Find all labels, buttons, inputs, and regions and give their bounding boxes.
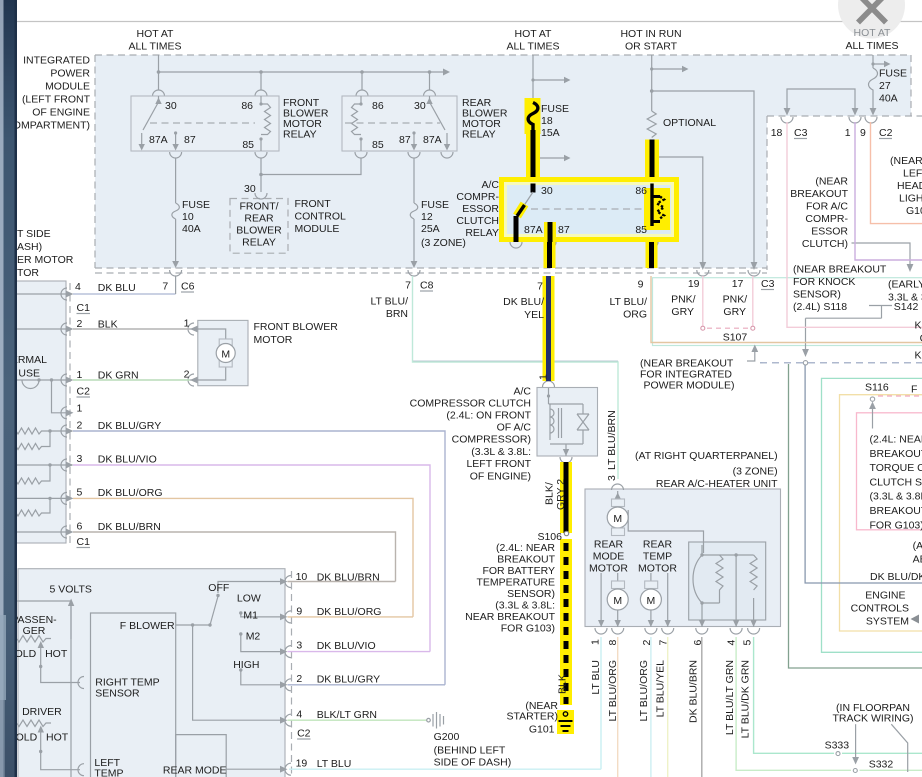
svg-text:85: 85 — [372, 139, 384, 151]
svg-text:T SIDE: T SIDE — [17, 228, 51, 240]
svg-text:4: 4 — [75, 281, 81, 293]
svg-text:2: 2 — [184, 369, 190, 381]
svg-text:LT BLU/BRN: LT BLU/BRN — [606, 410, 618, 470]
svg-text:1: 1 — [845, 127, 851, 139]
svg-text:5: 5 — [741, 640, 753, 646]
svg-text:TRACK WIRING): TRACK WIRING) — [832, 713, 913, 725]
svg-text:DK BLU/ORG: DK BLU/ORG — [98, 487, 163, 499]
breakout box (near breakout for A/C compressor clutch) dashed border — [767, 116, 922, 270]
wire ORG from C2-9 fuse 27 — [871, 122, 922, 224]
S107 pointer arrow — [747, 352, 755, 361]
wire rear pin 5 LT BLU/DK GRN to S333 — [754, 637, 834, 753]
svg-text:C3: C3 — [794, 127, 808, 139]
svg-text:LT BLU/ORG: LT BLU/ORG — [638, 660, 650, 721]
svg-text:30: 30 — [165, 100, 177, 112]
A/C compressor clutch box — [537, 388, 598, 457]
svg-text:DK BLU/BRN: DK BLU/BRN — [317, 572, 380, 584]
passenger temp pot — [17, 636, 51, 643]
jumper bridge C3-18 to C2-1 — [787, 89, 855, 108]
svg-text:87: 87 — [558, 224, 570, 236]
svg-text:DK GRN: DK GRN — [98, 370, 139, 382]
svg-text:LT BLU/LT GRN: LT BLU/LT GRN — [724, 660, 736, 735]
svg-text:7: 7 — [537, 281, 543, 293]
connector arcs below A/C relay — [510, 242, 658, 248]
svg-text:2: 2 — [641, 640, 653, 646]
svg-text:GER: GER — [23, 625, 46, 637]
svg-text:(A: (A — [913, 540, 922, 552]
svg-text:86: 86 — [635, 185, 647, 197]
svg-text:(3.3L & 3.8L:: (3.3L & 3.8L: — [471, 446, 531, 458]
svg-text:85: 85 — [242, 139, 254, 151]
svg-text:YEL: YEL — [524, 309, 544, 321]
svg-text:CLUTCH): CLUTCH) — [802, 238, 848, 250]
svg-text:ENGINE: ENGINE — [865, 590, 905, 602]
left connector dashed line — [69, 283, 71, 546]
svg-text:MODULE: MODULE — [45, 81, 90, 93]
svg-text:OF ENGINE: OF ENGINE — [32, 107, 90, 119]
svg-text:COMPRESSOR): COMPRESSOR) — [452, 434, 531, 446]
svg-text:ESSOR: ESSOR — [462, 203, 499, 215]
svg-text:ALL TIMES: ALL TIMES — [506, 41, 559, 53]
svg-text:(NEAR: (NEAR — [815, 176, 848, 188]
rear unit resistor sub-box — [689, 542, 766, 620]
S106 splice circle — [564, 531, 568, 535]
S116 splice arrow — [872, 409, 874, 429]
svg-text:(2.4L: NEAR: (2.4L: NEAR — [496, 542, 555, 554]
relay3 pin30 stub — [531, 184, 536, 193]
fuse 18 symbol highlighted — [528, 103, 538, 131]
connector arcs above A/C relay — [527, 172, 658, 178]
cream system box — [840, 395, 922, 631]
svg-text:(BEHIND LEFT: (BEHIND LEFT — [434, 745, 506, 757]
relay3 internal dashed line — [531, 208, 646, 210]
svg-text:7: 7 — [658, 640, 670, 646]
front/rear blower relay dashed box — [230, 199, 288, 254]
svg-text:LT BLU/YEL: LT BLU/YEL — [655, 660, 667, 718]
svg-text:FOR KNOCK: FOR KNOCK — [793, 276, 855, 288]
wire top motor to resistor pack — [628, 510, 703, 553]
control 5 volts arrow — [70, 605, 72, 623]
motor box pin arrows — [190, 326, 198, 333]
relay R1 front blower motor relay box — [131, 96, 279, 151]
left resistor row6 wire — [16, 531, 66, 533]
svg-text:17: 17 — [732, 278, 744, 290]
dashed wire K circuit — [760, 362, 922, 364]
svg-text:GRY 2: GRY 2 — [555, 479, 567, 510]
close button X — [838, 0, 905, 39]
svg-text:TEMPERATURE: TEMPERATURE — [476, 577, 555, 589]
svg-text:M: M — [613, 513, 622, 525]
relay R2 coil — [352, 96, 362, 151]
svg-text:S107: S107 — [723, 332, 748, 344]
white callout box S107 region — [653, 278, 922, 346]
IPM dashed border — [95, 55, 911, 268]
svg-text:87: 87 — [184, 134, 196, 146]
svg-text:5: 5 — [77, 487, 83, 499]
svg-text:REAR A/C-HEATER UNIT: REAR A/C-HEATER UNIT — [656, 478, 778, 490]
svg-text:G102: G102 — [906, 205, 922, 217]
svg-text:BLK: BLK — [98, 319, 118, 331]
svg-text:HOT AT: HOT AT — [137, 28, 175, 40]
svg-text:GRY: GRY — [671, 306, 694, 318]
svg-text:2: 2 — [296, 673, 302, 685]
wire relay3 87 to IPM connector highlighted — [544, 242, 556, 268]
svg-text:27: 27 — [879, 80, 891, 92]
wire gray companion over LT BLU/BRN — [413, 360, 619, 362]
svg-text:9: 9 — [860, 127, 866, 139]
svg-text:87: 87 — [399, 134, 411, 146]
S332 splice circle — [853, 769, 857, 773]
svg-text:C2: C2 — [77, 386, 91, 398]
relay R2 switch — [430, 102, 446, 130]
wire rear pin 7 LT BLU/YEL — [667, 637, 669, 777]
wire LT BLU/BRN from C8 to rear unit pin 3 — [413, 276, 619, 479]
svg-text:FRONT: FRONT — [295, 198, 332, 210]
svg-text:HEAD-: HEAD- — [897, 180, 922, 192]
svg-text:LT BLU/DK GRN: LT BLU/DK GRN — [740, 660, 752, 738]
wire rear pin 6 DK BLU/BRN — [701, 637, 703, 777]
wire relay coils 85 join to front/rear blower relay — [255, 152, 367, 158]
svg-text:BLK/LT GRN: BLK/LT GRN — [317, 709, 377, 721]
svg-text:FOR A/C: FOR A/C — [806, 201, 848, 213]
svg-text:REAR MODE: REAR MODE — [163, 765, 227, 777]
blower switch lever to OFF — [210, 597, 218, 625]
svg-text:(2.4L: NEAR: (2.4L: NEAR — [870, 434, 922, 446]
control box wire arrows — [280, 578, 288, 585]
IPM module background fill — [95, 55, 911, 268]
switch M2 terminal — [239, 632, 242, 635]
wire DK BLU/VIO row — [73, 465, 430, 652]
svg-text:OF ENGINE): OF ENGINE) — [470, 471, 531, 483]
connector arcs atop relay boxes — [153, 90, 436, 96]
fuse 10 symbol — [172, 203, 180, 219]
svg-text:K: K — [915, 350, 922, 362]
left resistor box connector arcs — [61, 288, 67, 538]
svg-text:7: 7 — [162, 281, 168, 293]
wire PNK/GRY pin19 to S107 — [702, 276, 704, 326]
svg-text:40A: 40A — [879, 93, 898, 105]
left resistor ladder row1 stub — [52, 380, 67, 413]
svg-text:30: 30 — [244, 183, 256, 195]
dashed pink wire at S116 — [878, 395, 922, 397]
svg-text:LIGHT): LIGHT) — [899, 193, 922, 205]
wire S118 to S142 — [806, 306, 893, 350]
F BLOWER sub-box — [91, 613, 176, 777]
svg-text:7: 7 — [405, 280, 411, 292]
svg-text:CONTROL: CONTROL — [295, 211, 346, 223]
wire BLK S106 to G101 highlighted dashed — [560, 539, 572, 705]
svg-text:(3.3L & 3.8L: (3.3L & 3.8L — [870, 491, 922, 503]
svg-text:POWER MODULE): POWER MODULE) — [644, 380, 735, 392]
front blower motor internals — [190, 329, 226, 380]
svg-text:15A: 15A — [541, 127, 560, 139]
svg-text:87A: 87A — [423, 134, 442, 146]
svg-text:STARTER): STARTER) — [506, 711, 558, 723]
wire relay2 pin87 to fuse12 — [408, 152, 453, 158]
svg-text:OLD: OLD — [16, 732, 38, 744]
svg-text:F: F — [911, 384, 917, 396]
svg-text:K: K — [915, 320, 922, 332]
svg-text:1: 1 — [538, 374, 550, 380]
svg-text:FUSE: FUSE — [541, 103, 569, 115]
svg-text:OF A/C: OF A/C — [497, 422, 532, 434]
A/C-heater control module box (bottom left) — [18, 569, 285, 777]
svg-text:BREAKOUT: BREAKOUT — [497, 554, 555, 566]
svg-text:COMPR-: COMPR- — [456, 191, 499, 203]
svg-text:SENSOR: SENSOR — [95, 688, 140, 700]
svg-text:FUSE: FUSE — [182, 199, 210, 211]
wire BLK/LT GRN to G200 — [288, 719, 428, 721]
svg-text:86: 86 — [372, 100, 384, 112]
svg-text:INTEGRATED: INTEGRATED — [23, 55, 90, 67]
temperature pots sub-box — [17, 601, 71, 777]
svg-text:RELAY: RELAY — [283, 129, 317, 141]
svg-text:1: 1 — [184, 318, 190, 330]
svg-text:F BLOWER: F BLOWER — [120, 620, 175, 632]
HOT feed 2 wire to fuse 18 — [533, 55, 564, 102]
wire rear pin 2 LT BLU/ORG — [650, 637, 652, 777]
svg-text:(2.4L: ON FRONT: (2.4L: ON FRONT — [446, 410, 531, 422]
svg-text:ALL TIMES: ALL TIMES — [845, 40, 898, 52]
svg-text:PNK/: PNK/ — [671, 294, 696, 306]
control box connector dashed line — [291, 571, 293, 777]
svg-text:25A: 25A — [421, 223, 440, 235]
relay R1 coil — [261, 96, 271, 151]
svg-text:1: 1 — [589, 639, 601, 645]
relay R1 pin 87 — [175, 133, 177, 145]
mint system box — [822, 378, 922, 652]
wire DK BLU row C1-4 to C6 — [73, 293, 176, 295]
svg-text:MOTOR: MOTOR — [589, 563, 628, 575]
svg-text:85: 85 — [635, 224, 647, 236]
svg-text:ER MOTOR: ER MOTOR — [17, 254, 74, 266]
left box wire arrows into connector — [66, 291, 74, 298]
driver temp pot — [17, 720, 51, 727]
svg-text:DK BLU/ORG: DK BLU/ORG — [317, 606, 382, 618]
svg-text:MOTOR: MOTOR — [638, 563, 677, 575]
wire DK BLU/GRY row — [73, 431, 445, 685]
svg-text:DK BLU/GRY: DK BLU/GRY — [98, 420, 161, 432]
svg-text:CLUTCH SO: CLUTCH SO — [870, 476, 922, 488]
floorpan leader line — [891, 724, 907, 772]
blower motor resistor box (left) — [15, 281, 66, 543]
svg-text:30: 30 — [541, 185, 553, 197]
wire optional to relay 86 highlighted — [645, 140, 659, 179]
IPM connector dashed row — [95, 272, 767, 274]
svg-text:19: 19 — [688, 278, 700, 290]
rear resistor 1 — [716, 555, 723, 603]
wire switch common to BLK/LT GRN row — [193, 625, 280, 720]
svg-text:BLK/: BLK/ — [544, 482, 556, 505]
svg-text:(NEAR BREAKOUT: (NEAR BREAKOUT — [793, 264, 887, 276]
switch M1 terminal — [239, 611, 242, 614]
svg-text:DK BLU/BRN: DK BLU/BRN — [688, 660, 700, 723]
svg-text:9: 9 — [638, 278, 644, 290]
svg-text:18: 18 — [771, 127, 783, 139]
relay R2 internal dashed — [345, 122, 440, 124]
svg-text:DK BLU/: DK BLU/ — [503, 296, 544, 308]
svg-text:4: 4 — [296, 709, 302, 721]
wire rear pin 8 LT BLU/ORG — [617, 637, 619, 777]
switch HIGH terminal — [239, 668, 242, 671]
svg-text:5 VOLTS: 5 VOLTS — [50, 584, 92, 596]
wire PNK/GRY pin17 to S107 — [752, 276, 754, 326]
svg-text:S332: S332 — [869, 759, 894, 771]
svg-text:G101: G101 — [529, 724, 555, 736]
svg-text:COMPARTMENT): COMPARTMENT) — [5, 120, 90, 132]
svg-text:C8: C8 — [420, 280, 434, 292]
svg-text:(NEAR: (NEAR — [890, 155, 922, 167]
svg-text:MODE: MODE — [593, 551, 625, 563]
svg-text:HOT: HOT — [46, 732, 69, 744]
sage system box (engine controls outer) — [789, 364, 922, 668]
relay3 pin 87 output wire highlighted — [544, 222, 556, 242]
fuse 12 symbol — [410, 203, 418, 219]
svg-text:USE: USE — [18, 368, 40, 380]
svg-text:LT BLU/: LT BLU/ — [609, 296, 647, 308]
svg-text:A/C: A/C — [513, 386, 531, 398]
svg-text:M2: M2 — [246, 631, 261, 643]
svg-text:RELAY: RELAY — [242, 237, 276, 249]
relay R2 rear blower motor relay box — [342, 96, 457, 151]
svg-text:HOT IN RUN: HOT IN RUN — [620, 28, 681, 40]
branch wire optional to C3 pin 17 — [652, 91, 754, 252]
svg-text:C2: C2 — [297, 728, 311, 740]
relay R2 pin 87 — [413, 133, 415, 145]
motor box connector arcs — [188, 323, 194, 386]
svg-text:FOR BATTERY: FOR BATTERY — [482, 565, 555, 577]
relay R2 pin 87A — [446, 133, 448, 145]
svg-text:3: 3 — [606, 475, 618, 481]
svg-text:HOT AT: HOT AT — [515, 28, 553, 40]
wire BLK/GRY 2 compressor to S106 highlighted — [560, 462, 572, 533]
wire relay3 85 to IPM connector highlighted — [646, 242, 658, 268]
wire DK BLU/ORG row — [73, 498, 413, 617]
optional resistor — [647, 111, 656, 138]
svg-text:LT BLU: LT BLU — [317, 758, 352, 770]
svg-text:86: 86 — [241, 100, 253, 112]
control box connector arcs — [285, 576, 291, 776]
svg-text:RELAY: RELAY — [462, 129, 496, 141]
svg-text:RELAY: RELAY — [465, 227, 499, 239]
svg-text:REAR: REAR — [643, 539, 673, 551]
svg-text:LT BLU/: LT BLU/ — [370, 296, 408, 308]
thermal fuse arc — [22, 380, 39, 389]
svg-text:SENSOR): SENSOR) — [507, 588, 555, 600]
wire DK BLU/BRN row — [73, 532, 396, 582]
svg-text:DK BLU: DK BLU — [98, 282, 136, 294]
svg-text:(3 ZONE): (3 ZONE) — [421, 237, 466, 249]
svg-text:BREAKOUT: BREAKOUT — [870, 505, 922, 517]
svg-text:FUSE: FUSE — [879, 68, 907, 80]
svg-text:S116: S116 — [865, 382, 889, 394]
svg-text:DK BLU/BRN: DK BLU/BRN — [98, 521, 161, 533]
svg-text:G200: G200 — [434, 731, 460, 743]
svg-text:3: 3 — [296, 640, 302, 652]
white callout box C6 region — [70, 294, 340, 312]
svg-text:6: 6 — [77, 521, 83, 533]
wire clutch leader to S142 arrow — [852, 243, 911, 264]
left resistor row5 and R4 — [16, 497, 66, 499]
rear temp motor — [651, 573, 668, 627]
connector arcs below breakout box top — [781, 117, 877, 123]
relay R1 internal dashed — [150, 122, 255, 124]
svg-text:FRONT BLOWER: FRONT BLOWER — [254, 321, 339, 333]
svg-text:19: 19 — [296, 758, 308, 770]
svg-text:FOR G103): FOR G103) — [870, 519, 922, 531]
svg-text:2: 2 — [77, 318, 83, 330]
svg-text:OLD: OLD — [15, 648, 37, 660]
svg-text:LT BLU/ORG: LT BLU/ORG — [607, 660, 619, 721]
F blower box connector arcs — [78, 677, 84, 776]
wire DK GRN row to blower motor pin2 — [73, 379, 190, 381]
wire LT BLU row 19 to rear unit pin 1 — [289, 637, 601, 769]
HOT feed 4 wire to fuse 27 — [873, 55, 884, 68]
front blower motor box — [198, 320, 248, 385]
wire BLK row to blower motor pin1 — [73, 328, 190, 330]
svg-text:HIGH: HIGH — [233, 659, 259, 671]
svg-text:BLK: BLK — [557, 674, 569, 694]
svg-text:DRIVER: DRIVER — [22, 706, 62, 718]
relay R1 pin 30 — [158, 96, 160, 104]
rear A/C-heater unit box — [585, 489, 781, 627]
svg-text:CONTROLS: CONTROLS — [851, 603, 909, 615]
svg-text:MOTOR: MOTOR — [254, 334, 293, 346]
svg-text:SENSOR): SENSOR) — [793, 289, 841, 301]
wire VIO from C2-1 — [855, 122, 922, 260]
svg-text:4: 4 — [725, 640, 737, 646]
svg-text:(3 ZONE): (3 ZONE) — [733, 466, 778, 478]
svg-text:DK BLU/VIO: DK BLU/VIO — [317, 640, 376, 652]
svg-text:(3.3L & 3.8L:: (3.3L & 3.8L: — [495, 600, 555, 612]
svg-text:3: 3 — [77, 453, 83, 465]
top toolbar — [17, 0, 922, 21]
ground G101 — [557, 710, 574, 734]
wire relay1 pin87 to fuse10 — [175, 158, 177, 262]
wire rear pin 4 LT BLU/LT GRN to S332 — [736, 637, 851, 770]
rear resistor 2 — [750, 555, 757, 590]
relay R1 switch — [143, 102, 159, 130]
svg-text:S142: S142 — [894, 301, 919, 313]
svg-text:10: 10 — [182, 211, 194, 223]
svg-text:M1: M1 — [243, 610, 258, 622]
wire DK BLU/DK GRN to engine controls — [805, 365, 922, 583]
svg-text:MODULE: MODULE — [295, 223, 340, 235]
rear unit top connector arc — [612, 484, 624, 490]
svg-text:FOR G103): FOR G103) — [501, 623, 555, 635]
S333 splice circle — [836, 752, 840, 756]
svg-text:REAR: REAR — [244, 213, 274, 225]
S107 splice dashed wire — [707, 327, 749, 329]
fuse 27 symbol — [869, 68, 878, 101]
rear unit top motor (rear blower) — [617, 491, 619, 498]
svg-text:M: M — [613, 595, 622, 607]
svg-text:40A: 40A — [182, 223, 201, 235]
svg-text:ESSOR: ESSOR — [811, 226, 848, 238]
pink system box (2.4L breakout torque converter) — [857, 413, 922, 530]
svg-text:FUSE: FUSE — [421, 199, 449, 211]
white callout box C8 region — [372, 293, 412, 321]
svg-text:PNK/: PNK/ — [723, 294, 748, 306]
svg-text:12: 12 — [421, 211, 433, 223]
svg-text:POWER: POWER — [50, 68, 90, 80]
bus HOT AT ALL TIMES feed 1 — [159, 55, 444, 90]
wire PNK from C3-18 — [787, 122, 922, 327]
svg-text:M: M — [221, 349, 230, 361]
svg-text:DK BLU/DK: DK BLU/DK — [870, 571, 922, 583]
svg-text:(LEFT FRONT: (LEFT FRONT — [22, 94, 91, 106]
REAR MODE sub-box — [176, 735, 227, 777]
